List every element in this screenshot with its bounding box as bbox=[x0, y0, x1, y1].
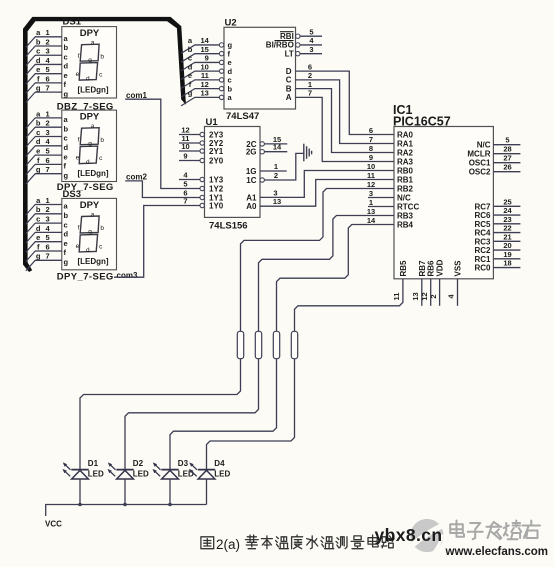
svg-text:6: 6 bbox=[369, 126, 373, 135]
svg-text:15: 15 bbox=[200, 45, 208, 54]
wire resistor R2 to LED D2 bbox=[125, 359, 259, 470]
svg-text:g: g bbox=[88, 229, 92, 236]
svg-text:MCLR: MCLR bbox=[467, 150, 490, 159]
svg-text:5: 5 bbox=[46, 65, 50, 74]
svg-text:3: 3 bbox=[309, 45, 313, 54]
segment-data bus from displays to 74LS47 (thick black polygon) bbox=[23, 17, 186, 272]
svg-text:d: d bbox=[64, 62, 69, 71]
svg-text:www.elecfans.com: www.elecfans.com bbox=[445, 546, 548, 558]
svg-text:b: b bbox=[100, 53, 104, 60]
svg-text:20: 20 bbox=[503, 241, 511, 250]
svg-text:10: 10 bbox=[200, 62, 208, 71]
LED D2 bbox=[108, 459, 150, 504]
IC1 N/C stub (pin 3) bbox=[368, 197, 394, 199]
svg-text:ybx8.cn: ybx8.cn bbox=[375, 525, 443, 545]
IC1 left pin numbers 6,7,8,9,10,11,12,3,1,13,14 bbox=[367, 126, 376, 225]
svg-text:VDD: VDD bbox=[436, 259, 445, 276]
svg-text:D3: D3 bbox=[178, 459, 189, 468]
U1 right stubs 2C(15) 2G(14) 1G(1) bbox=[260, 135, 287, 171]
wire U2 C (pin 2) to IC1 RA1 bbox=[296, 80, 395, 144]
svg-text:5: 5 bbox=[183, 180, 187, 189]
svg-text:b: b bbox=[228, 84, 233, 93]
svg-text:5: 5 bbox=[505, 136, 509, 145]
svg-text:g: g bbox=[36, 84, 41, 93]
svg-text:PIC16C57: PIC16C57 bbox=[393, 114, 451, 128]
svg-text:3: 3 bbox=[46, 128, 50, 137]
LED D4 bbox=[189, 459, 231, 504]
net com2: DS2 common to U1 1Y1 (pin 6) bbox=[125, 173, 200, 198]
net com1: DS1 common to U1 1Y2 (pin 5) bbox=[125, 91, 200, 188]
resistor R2 bbox=[255, 331, 261, 358]
svg-text:11: 11 bbox=[392, 293, 401, 301]
svg-text:VSS: VSS bbox=[454, 260, 463, 277]
svg-text:14: 14 bbox=[367, 216, 376, 225]
svg-text:RB7: RB7 bbox=[418, 260, 427, 277]
svg-text:6: 6 bbox=[308, 62, 312, 71]
svg-text:c: c bbox=[64, 134, 68, 143]
svg-text:6: 6 bbox=[46, 242, 50, 251]
svg-text:A: A bbox=[286, 93, 292, 102]
svg-text:RBI: RBI bbox=[280, 32, 294, 41]
svg-text:6: 6 bbox=[46, 156, 50, 165]
wire resistor R4 to LED D4 bbox=[207, 359, 295, 470]
IC1 bottom pin stubs RB7(13) RB6(12) VDD(2) VSS(4) bbox=[392, 279, 457, 306]
svg-text:D2: D2 bbox=[133, 459, 144, 468]
svg-text:9: 9 bbox=[205, 54, 209, 63]
wire IC1 RB2 (pin 12) to resistor R1 bbox=[241, 189, 395, 332]
wire U1 A1 (pin 3) to IC1 RB0 (pin 10) bbox=[260, 171, 394, 198]
svg-text:g: g bbox=[36, 165, 41, 174]
svg-text:RA2: RA2 bbox=[397, 149, 414, 158]
svg-text:3: 3 bbox=[273, 188, 277, 197]
svg-text:23: 23 bbox=[503, 215, 511, 224]
svg-text:RB4: RB4 bbox=[397, 221, 414, 230]
svg-text:74LS156: 74LS156 bbox=[209, 221, 248, 232]
svg-text:g: g bbox=[88, 140, 92, 147]
svg-text:g: g bbox=[64, 89, 69, 98]
svg-text:2: 2 bbox=[429, 294, 438, 298]
svg-text:e: e bbox=[36, 147, 40, 156]
svg-text:2(a): 2(a) bbox=[216, 537, 240, 552]
svg-text:1Y2: 1Y2 bbox=[209, 185, 224, 194]
wire U2 D (pin 6) to IC1 RA0 bbox=[296, 71, 395, 134]
svg-text:b: b bbox=[64, 124, 69, 133]
wire resistor R1 to LED D1 bbox=[80, 359, 241, 470]
svg-text:d: d bbox=[86, 247, 90, 254]
svg-text:d: d bbox=[86, 159, 90, 166]
svg-text:DPY: DPY bbox=[80, 112, 100, 123]
svg-text:d: d bbox=[36, 224, 41, 233]
svg-text:13: 13 bbox=[411, 292, 420, 300]
svg-text:g: g bbox=[188, 89, 193, 98]
DS3 pin stubs a-g with bus taps and pin numbers 1-7 bbox=[26, 196, 62, 271]
wire U1 A0 (pin 13) to IC1 RB1 (pin 11) bbox=[260, 180, 394, 207]
net com3: DS3 common to U1 1Y0 (pin 7) bbox=[114, 206, 200, 281]
svg-text:b: b bbox=[36, 119, 41, 128]
svg-text:2Y0: 2Y0 bbox=[209, 157, 224, 166]
svg-text:[LEDgn]: [LEDgn] bbox=[77, 169, 108, 178]
svg-text:7: 7 bbox=[46, 252, 50, 261]
svg-text:a: a bbox=[91, 40, 95, 47]
svg-text:f: f bbox=[78, 53, 80, 60]
svg-text:RA3: RA3 bbox=[397, 158, 414, 167]
svg-text:c: c bbox=[228, 76, 232, 85]
svg-text:7: 7 bbox=[369, 135, 373, 144]
svg-text:14: 14 bbox=[200, 36, 209, 45]
svg-text:10: 10 bbox=[181, 142, 189, 151]
svg-text:RC6: RC6 bbox=[474, 211, 491, 220]
resistor R3 bbox=[273, 331, 279, 358]
svg-text:RB0: RB0 bbox=[397, 167, 414, 176]
junction D2-rail bbox=[123, 503, 127, 507]
svg-text:b: b bbox=[64, 43, 69, 52]
svg-text:D4: D4 bbox=[214, 459, 225, 468]
svg-text:8: 8 bbox=[369, 144, 373, 153]
svg-text:e: e bbox=[76, 243, 80, 250]
svg-text:b: b bbox=[36, 37, 41, 46]
svg-text:d: d bbox=[64, 230, 69, 239]
svg-text:1Y3: 1Y3 bbox=[209, 176, 224, 185]
svg-text:74LS47: 74LS47 bbox=[226, 111, 259, 122]
demultiplexer U1 74LS156 bbox=[205, 117, 261, 232]
svg-text:13: 13 bbox=[367, 207, 375, 216]
svg-text:D: D bbox=[286, 67, 292, 76]
svg-text:RB6: RB6 bbox=[427, 260, 436, 277]
LED D3 bbox=[153, 459, 195, 504]
svg-text:g: g bbox=[88, 57, 92, 64]
svg-text:[LEDgn]: [LEDgn] bbox=[77, 257, 108, 266]
svg-text:e: e bbox=[36, 233, 40, 242]
svg-text:A1: A1 bbox=[246, 193, 257, 202]
svg-text:24: 24 bbox=[503, 206, 512, 215]
svg-text:2G: 2G bbox=[246, 148, 257, 157]
svg-text:LED: LED bbox=[133, 469, 149, 478]
svg-text:11: 11 bbox=[201, 71, 209, 80]
IC1 RTCC stub (pin 1) bbox=[368, 206, 394, 208]
svg-text:RB1: RB1 bbox=[397, 176, 414, 185]
svg-text:1: 1 bbox=[46, 28, 50, 37]
svg-text:5: 5 bbox=[46, 147, 50, 156]
svg-text:e: e bbox=[36, 65, 40, 74]
svg-text:RC1: RC1 bbox=[474, 255, 491, 264]
svg-text:f: f bbox=[78, 225, 80, 232]
svg-text:LED: LED bbox=[214, 469, 230, 478]
DS2 pin stubs a-g with bus taps and pin numbers 1-7 bbox=[26, 109, 62, 184]
svg-text:f: f bbox=[78, 136, 80, 143]
svg-text:RC3: RC3 bbox=[474, 237, 491, 246]
svg-text:RC4: RC4 bbox=[474, 229, 491, 238]
svg-text:1: 1 bbox=[308, 80, 312, 89]
svg-text:c: c bbox=[36, 128, 40, 137]
svg-text:c: c bbox=[36, 215, 40, 224]
svg-text:12: 12 bbox=[367, 180, 375, 189]
svg-text:d: d bbox=[64, 143, 69, 152]
svg-text:com3: com3 bbox=[117, 271, 138, 280]
svg-text:[LEDgn]: [LEDgn] bbox=[77, 85, 108, 94]
resistor R1 bbox=[237, 331, 243, 358]
7-segment display DS1 (DPY green LED) bbox=[62, 27, 117, 99]
svg-text:d: d bbox=[228, 67, 233, 76]
signal ground symbol bbox=[304, 144, 312, 162]
svg-text:OSC1: OSC1 bbox=[469, 159, 491, 168]
DS1 pin stubs a-g with bus taps and pin numbers 1-7 bbox=[26, 28, 62, 102]
svg-text:OSC2: OSC2 bbox=[469, 168, 491, 177]
svg-text:e: e bbox=[76, 155, 80, 162]
svg-text:7: 7 bbox=[46, 84, 50, 93]
svg-text:C: C bbox=[286, 76, 292, 85]
svg-text:c: c bbox=[188, 54, 192, 63]
svg-text:7: 7 bbox=[46, 165, 50, 174]
caption: 图2(a)基本温度水温测量电路 (pseudo-glyph strokes) bbox=[201, 535, 394, 552]
svg-text:RB5: RB5 bbox=[399, 260, 408, 277]
svg-text:b: b bbox=[36, 205, 41, 214]
svg-text:1: 1 bbox=[369, 198, 373, 207]
svg-text:c: c bbox=[36, 47, 40, 56]
junction D3-rail bbox=[168, 503, 172, 507]
svg-text:LED: LED bbox=[88, 469, 104, 478]
svg-text:9: 9 bbox=[369, 153, 373, 162]
svg-text:b: b bbox=[100, 137, 104, 144]
svg-text:2: 2 bbox=[308, 71, 312, 80]
svg-text:27: 27 bbox=[503, 154, 511, 163]
svg-text:2: 2 bbox=[274, 171, 278, 180]
svg-text:c: c bbox=[64, 52, 68, 61]
svg-text:21: 21 bbox=[503, 232, 511, 241]
svg-text:DPY_7-SEG: DPY_7-SEG bbox=[57, 272, 114, 283]
svg-text:e: e bbox=[64, 71, 68, 80]
svg-text:c: c bbox=[64, 220, 68, 229]
svg-text:e: e bbox=[64, 239, 68, 248]
7-segment display DS2 (DPY green LED) bbox=[62, 110, 117, 181]
svg-text:e: e bbox=[188, 71, 192, 80]
svg-text:g: g bbox=[36, 252, 41, 261]
svg-text:12: 12 bbox=[200, 80, 208, 89]
svg-text:a: a bbox=[91, 123, 95, 130]
svg-text:g: g bbox=[64, 171, 69, 180]
U1 left pin stubs with numbers 12,11,10,9 and 4,5,6,7 bbox=[179, 126, 204, 208]
svg-text:DS1: DS1 bbox=[63, 17, 82, 28]
svg-text:1G: 1G bbox=[246, 167, 257, 176]
svg-text:26: 26 bbox=[503, 163, 511, 172]
svg-text:RTCC: RTCC bbox=[397, 203, 419, 212]
svg-text:d: d bbox=[86, 75, 90, 82]
svg-text:N/C: N/C bbox=[397, 194, 411, 203]
svg-text:RC7: RC7 bbox=[474, 202, 491, 211]
svg-text:d: d bbox=[36, 137, 41, 146]
wire IC1 RB3 (pin 13) to resistor R2 bbox=[259, 216, 395, 332]
resistor R4 bbox=[291, 331, 297, 358]
svg-text:RC5: RC5 bbox=[474, 220, 491, 229]
svg-text:18: 18 bbox=[503, 259, 511, 268]
svg-text:5: 5 bbox=[46, 233, 50, 242]
svg-text:e: e bbox=[64, 152, 68, 161]
svg-text:11: 11 bbox=[367, 171, 375, 180]
svg-text:VCC: VCC bbox=[45, 519, 62, 528]
svg-text:13: 13 bbox=[200, 89, 208, 98]
svg-text:RA1: RA1 bbox=[397, 140, 414, 149]
svg-text:a: a bbox=[91, 211, 95, 218]
svg-text:DBZ_7-SEG: DBZ_7-SEG bbox=[57, 101, 114, 112]
svg-text:19: 19 bbox=[503, 250, 511, 259]
svg-text:e: e bbox=[228, 58, 232, 67]
svg-text:9: 9 bbox=[183, 152, 187, 161]
IC1 right pin stubs with numbers bbox=[493, 136, 520, 268]
svg-text:D1: D1 bbox=[88, 459, 99, 468]
wire U2 B (pin 1) to IC1 RA2 bbox=[296, 89, 395, 153]
svg-text:2: 2 bbox=[46, 205, 50, 214]
svg-text:3: 3 bbox=[46, 47, 50, 56]
svg-text:2: 2 bbox=[46, 37, 50, 46]
svg-text:b: b bbox=[188, 45, 193, 54]
svg-text:B: B bbox=[286, 84, 292, 93]
svg-text:DPY: DPY bbox=[80, 28, 100, 39]
LED D1 bbox=[63, 459, 105, 504]
svg-text:RC2: RC2 bbox=[474, 246, 491, 255]
svg-text:g: g bbox=[64, 258, 69, 267]
svg-text:U1: U1 bbox=[206, 117, 219, 128]
U2 right stubs RBI(5) BI/RBO(4) LT(3) bbox=[296, 27, 322, 55]
svg-text:N/C: N/C bbox=[477, 141, 491, 150]
svg-text:d: d bbox=[188, 62, 193, 71]
U2 left pin stubs (pins 14,15,9,10,11,12,13) with bus taps bbox=[181, 36, 224, 106]
watermark 电子发烧友 (pseudo-glyph strokes, grey) bbox=[450, 521, 540, 540]
svg-text:1C: 1C bbox=[246, 176, 256, 185]
svg-text:1: 1 bbox=[46, 196, 50, 205]
svg-text:3: 3 bbox=[46, 215, 50, 224]
microcontroller IC1 PIC16C57 bbox=[393, 103, 493, 279]
svg-text:1: 1 bbox=[274, 162, 278, 171]
svg-text:RA0: RA0 bbox=[397, 131, 414, 140]
junction D1-rail bbox=[78, 503, 82, 507]
svg-text:d: d bbox=[36, 56, 41, 65]
wire common anode rail to VCC bbox=[46, 505, 207, 517]
svg-text:6: 6 bbox=[46, 74, 50, 83]
svg-text:22: 22 bbox=[503, 224, 511, 233]
svg-text:2Y1: 2Y1 bbox=[209, 147, 224, 156]
svg-text:g: g bbox=[228, 41, 233, 50]
wire U2 A (pin 7) to IC1 RA3 bbox=[296, 97, 395, 161]
svg-text:b: b bbox=[100, 225, 104, 232]
svg-text:25: 25 bbox=[503, 197, 511, 206]
svg-text:7: 7 bbox=[308, 89, 312, 98]
svg-text:10: 10 bbox=[367, 162, 375, 171]
svg-text:A0: A0 bbox=[246, 202, 257, 211]
svg-text:RB3: RB3 bbox=[397, 212, 414, 221]
svg-text:13: 13 bbox=[273, 197, 281, 206]
svg-text:LT: LT bbox=[285, 49, 294, 58]
wire IC1 RB5 (pin 11, bottom) to resistor R4 bbox=[295, 279, 403, 332]
svg-text:U2: U2 bbox=[225, 18, 237, 29]
svg-text:DPY: DPY bbox=[80, 200, 100, 211]
svg-text:2: 2 bbox=[46, 119, 50, 128]
elecfans watermark logo circle with swoosh bbox=[410, 519, 443, 554]
7-segment display DS3 (DPY green LED) bbox=[62, 198, 117, 269]
svg-text:e: e bbox=[76, 71, 80, 78]
svg-text:b: b bbox=[64, 211, 69, 220]
svg-text:3: 3 bbox=[369, 189, 373, 198]
svg-text:1: 1 bbox=[46, 109, 50, 118]
BCD decoder U2 74LS47 bbox=[224, 18, 296, 122]
svg-text:RC0: RC0 bbox=[474, 264, 491, 273]
svg-text:BI/RBO: BI/RBO bbox=[266, 41, 294, 50]
wire IC1 RB4 (pin 14) to resistor R3 bbox=[277, 225, 395, 332]
svg-text:DS3: DS3 bbox=[63, 189, 81, 200]
svg-text:14: 14 bbox=[273, 143, 282, 152]
svg-text:RB2: RB2 bbox=[397, 185, 414, 194]
svg-text:28: 28 bbox=[503, 145, 511, 154]
svg-text:5: 5 bbox=[309, 27, 313, 36]
wire U1 1C (pin 2) to signal ground bbox=[260, 153, 304, 182]
wire resistor R3 to LED D3 bbox=[170, 359, 277, 470]
svg-text:12: 12 bbox=[420, 292, 429, 300]
svg-text:1Y0: 1Y0 bbox=[209, 202, 224, 211]
